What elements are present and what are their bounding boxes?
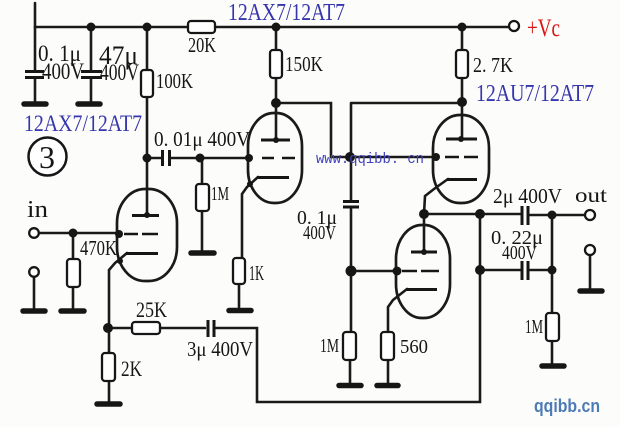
svg-text:in: in [27, 197, 48, 223]
svg-text:400V: 400V [303, 222, 336, 244]
svg-text:1M: 1M [211, 183, 229, 205]
svg-text:1M: 1M [320, 335, 339, 357]
svg-text:25K: 25K [136, 297, 167, 322]
svg-text:+Vc: +Vc [527, 15, 560, 42]
svg-text:2K: 2K [121, 356, 142, 381]
svg-text:1M: 1M [525, 316, 543, 338]
svg-text:2μ 400V: 2μ 400V [493, 184, 562, 208]
svg-text:150K: 150K [285, 52, 323, 76]
svg-text:20K: 20K [188, 33, 216, 57]
svg-text:12AX7/12AT7: 12AX7/12AT7 [228, 0, 345, 26]
svg-text:12AU7/12AT7: 12AU7/12AT7 [476, 81, 594, 107]
svg-text:out: out [575, 183, 607, 207]
svg-text:0. 01μ 400V: 0. 01μ 400V [154, 127, 250, 151]
svg-text:qqibb.cn: qqibb.cn [534, 396, 600, 416]
svg-text:400V: 400V [502, 242, 537, 264]
svg-text:3: 3 [39, 139, 55, 175]
svg-text:400V: 400V [42, 59, 84, 84]
svg-text:12AX7/12AT7: 12AX7/12AT7 [24, 111, 142, 136]
svg-text:3μ 400V: 3μ 400V [187, 337, 253, 361]
svg-text:470K: 470K [80, 236, 117, 260]
svg-text:400V: 400V [100, 60, 139, 85]
svg-text:100K: 100K [156, 69, 193, 93]
svg-text:1K: 1K [249, 261, 264, 285]
svg-text:2. 7K: 2. 7K [473, 53, 513, 77]
svg-text:www.qqibb. cn: www.qqibb. cn [316, 151, 424, 168]
svg-text:560: 560 [400, 336, 428, 358]
